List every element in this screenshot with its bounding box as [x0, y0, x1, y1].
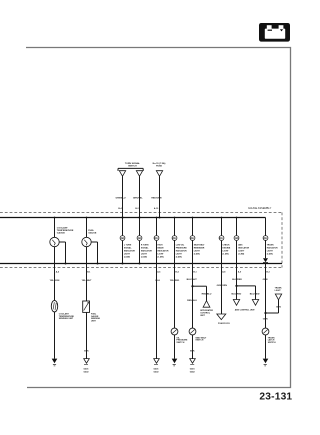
svg-text:SWITCH: SWITCH: [176, 342, 184, 344]
svg-text:ABS CONTROL UNIT: ABS CONTROL UNIT: [235, 309, 256, 312]
svg-text:(1.4W): (1.4W): [141, 256, 147, 259]
svg-text:RED/BLU: RED/BLU: [202, 293, 212, 295]
svg-text:INDICATOR: INDICATOR: [158, 250, 169, 253]
svg-text:GAUGE: GAUGE: [88, 231, 97, 234]
svg-text:REMINDER: REMINDER: [194, 248, 205, 250]
svg-text:(1.4W): (1.4W): [124, 256, 130, 259]
svg-text:GAUGE: GAUGE: [57, 231, 66, 234]
svg-text:23-131: 23-131: [259, 391, 292, 402]
svg-text:GRN/ORN: GRN/ORN: [217, 285, 228, 287]
svg-text:(1.4W): (1.4W): [267, 253, 273, 256]
svg-text:GRN/BLU: GRN/BLU: [116, 198, 126, 200]
svg-text:BLU/RED: BLU/RED: [232, 279, 242, 281]
svg-text:BLU/WHT: BLU/WHT: [187, 279, 198, 281]
svg-text:CHECK: CHECK: [223, 245, 231, 247]
svg-text:INDICATOR: INDICATOR: [124, 250, 135, 253]
svg-text:LOW OIL: LOW OIL: [176, 245, 185, 247]
svg-text:GRN: GRN: [263, 279, 268, 281]
svg-text:LIGHT: LIGHT: [176, 254, 183, 256]
svg-text:SIGNAL: SIGNAL: [124, 247, 132, 250]
svg-text:RED/BLU: RED/BLU: [187, 300, 197, 302]
svg-text:ENGINE: ENGINE: [223, 248, 231, 250]
svg-text:BLK: BLK: [156, 280, 161, 282]
svg-text:YEL/GRN: YEL/GRN: [50, 280, 60, 282]
svg-text:UNIT: UNIT: [91, 320, 96, 322]
svg-text:HIGH: HIGH: [158, 245, 164, 247]
svg-text:GRN: GRN: [263, 319, 268, 321]
svg-text:LIGHT: LIGHT: [158, 254, 165, 256]
svg-text:(1.4W): (1.4W): [238, 253, 244, 256]
svg-text:PRESSURE: PRESSURE: [176, 248, 188, 250]
svg-text:SEAT BELT: SEAT BELT: [194, 244, 206, 247]
svg-text:LIGHT: LIGHT: [267, 251, 274, 253]
svg-text:BEAM: BEAM: [158, 247, 164, 250]
svg-text:SWITCH: SWITCH: [195, 340, 203, 342]
svg-text:LIGHT: LIGHT: [238, 251, 245, 253]
svg-text:LIGHT: LIGHT: [124, 254, 131, 256]
svg-text:RED/GRN: RED/GRN: [151, 198, 162, 200]
svg-text:FUSE: FUSE: [156, 165, 162, 167]
svg-text:LIGHT: LIGHT: [275, 290, 282, 292]
svg-text:UNIT: UNIT: [200, 315, 205, 317]
svg-text:R TURN: R TURN: [141, 245, 149, 247]
svg-text:YEL/RED: YEL/RED: [170, 280, 180, 282]
svg-text:LIGHT: LIGHT: [141, 254, 148, 256]
svg-text:(1.4W): (1.4W): [223, 253, 229, 256]
svg-text:BLK: BLK: [84, 350, 89, 352]
svg-text:GRN: GRN: [276, 307, 281, 309]
svg-text:(1.4W): (1.4W): [176, 256, 182, 259]
svg-text:GAUGE ASSEMBLY: GAUGE ASSEMBLY: [248, 206, 272, 210]
svg-text:LIGHT: LIGHT: [194, 251, 201, 253]
svg-text:ABS: ABS: [238, 244, 243, 247]
svg-text:BLU/RED: BLU/RED: [250, 293, 260, 295]
svg-text:BLK: BLK: [190, 350, 195, 352]
svg-text:L TURN: L TURN: [124, 245, 132, 247]
svg-text:PGM-FI ECU: PGM-FI ECU: [218, 323, 230, 325]
svg-text:SWITCH: SWITCH: [128, 165, 137, 167]
svg-text:SENDING UNIT: SENDING UNIT: [59, 318, 74, 320]
svg-text:YEL/WHT: YEL/WHT: [82, 280, 93, 282]
svg-text:(1.4W): (1.4W): [194, 253, 200, 256]
svg-text:GRN/YEL: GRN/YEL: [133, 198, 143, 200]
svg-text:INDICATOR: INDICATOR: [176, 250, 187, 253]
svg-text:INDICATOR: INDICATOR: [141, 250, 152, 253]
svg-text:LIGHT: LIGHT: [223, 251, 230, 253]
svg-text:INDICATOR: INDICATOR: [238, 247, 249, 250]
svg-text:(1.4W): (1.4W): [158, 256, 164, 259]
svg-text:BLU/RED: BLU/RED: [232, 293, 242, 295]
svg-text:INDICATOR: INDICATOR: [267, 247, 278, 250]
svg-text:SIGNAL: SIGNAL: [141, 247, 149, 250]
svg-text:SWITCH: SWITCH: [268, 342, 276, 344]
svg-text:TRUNK: TRUNK: [267, 245, 275, 247]
